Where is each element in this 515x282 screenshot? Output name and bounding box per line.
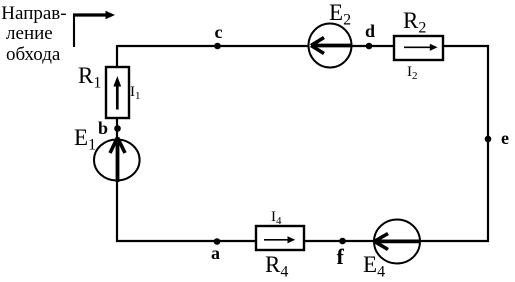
- node label e: [501, 128, 509, 149]
- resistor R2: [394, 36, 443, 60]
- label: direction text: [1, 4, 66, 66]
- label E4: [363, 252, 385, 282]
- node label b: [98, 118, 108, 139]
- resistor R4: [256, 226, 304, 250]
- wire bottom: E4 to R4 through node f: [305, 240, 376, 242]
- wire bottom: right corner to E4: [418, 240, 489, 242]
- resistor R1: [106, 67, 129, 118]
- node a: [214, 238, 221, 245]
- label I1: [130, 84, 141, 102]
- wire top: node c segment from left corner to E2: [117, 45, 309, 47]
- emf source E4: [374, 220, 420, 264]
- wire top: E2 to R2 with node d: [351, 45, 394, 47]
- label I2: [407, 64, 418, 82]
- emf source E1: [94, 138, 140, 183]
- label R1: [78, 63, 101, 93]
- node label f: [337, 244, 344, 270]
- direction-of-traversal arrow: [73, 11, 115, 47]
- emf source E2: [309, 24, 353, 68]
- wire right vertical through node e: [487, 45, 489, 242]
- node f: [339, 238, 346, 245]
- label R2: [403, 8, 426, 38]
- wire top: R2 to top-right corner: [443, 45, 489, 47]
- label E1: [74, 125, 96, 155]
- wire left vertical: bottom corner up to E1: [116, 160, 118, 242]
- label I4: [271, 209, 282, 227]
- wire left vertical: R1 top to top wire: [116, 45, 118, 67]
- node label c: [215, 22, 223, 43]
- node label d: [365, 21, 375, 42]
- label R4: [265, 252, 288, 282]
- wire left vertical: E1 to node b to R1: [116, 118, 118, 140]
- node d: [366, 43, 373, 50]
- node label a: [211, 243, 220, 264]
- node b: [114, 125, 121, 132]
- node c: [214, 43, 221, 50]
- node e: [485, 136, 492, 143]
- label E2: [329, 0, 351, 30]
- wire bottom: R4 to bottom-left corner: [116, 240, 256, 242]
